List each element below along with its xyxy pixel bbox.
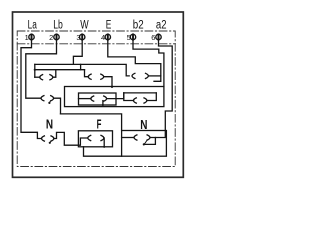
- wire terminal 3 to node A bus: [73, 40, 82, 65]
- terminal-strip divider (chain line): [17, 43, 175, 45]
- wire bus to contact S1 left: [34, 64, 36, 77]
- svg-text:3: 3: [76, 33, 80, 42]
- svg-text:N: N: [46, 117, 53, 131]
- contact S8b: [122, 135, 156, 146]
- wire terminal 4 to contact S3 right: [108, 40, 161, 82]
- wire terminal 5 to cam-group box: [133, 40, 164, 87]
- wire terminal 6 to contact S8 right: [155, 40, 172, 138]
- contact S2: [85, 70, 114, 88]
- contact S8a: [88, 135, 105, 148]
- terminal 1 (La): [29, 34, 34, 39]
- svg-text:E: E: [106, 20, 112, 32]
- node A upper bus: [35, 64, 129, 76]
- contact S5: [79, 93, 124, 106]
- terminal 3 (W): [80, 34, 85, 39]
- contact S3: [132, 73, 161, 78]
- svg-text:W: W: [80, 20, 89, 32]
- contact S1: [35, 70, 56, 80]
- svg-text:Lb: Lb: [53, 20, 63, 32]
- cam-group outer box: [65, 87, 164, 107]
- svg-text:2: 2: [49, 33, 53, 42]
- svg-text:5: 5: [127, 33, 131, 42]
- svg-text:4: 4: [101, 33, 105, 42]
- wire bus tie: [80, 64, 82, 69]
- svg-text:a2: a2: [156, 20, 167, 32]
- contact S7: [42, 132, 88, 145]
- switch enclosure boundary (chain line): [17, 31, 175, 167]
- svg-text:6: 6: [151, 33, 155, 42]
- terminal 5 (b2): [130, 34, 135, 39]
- contact S6: [124, 93, 157, 103]
- svg-text:La: La: [28, 20, 38, 32]
- wire cam box S8a to bottom rail: [84, 147, 122, 156]
- drawing frame: [13, 12, 184, 177]
- cam box S8b: [122, 131, 167, 157]
- svg-text:F: F: [97, 117, 102, 131]
- cam-group inner box: [79, 93, 117, 105]
- node C bus: [124, 92, 157, 94]
- svg-text:b2: b2: [133, 20, 144, 32]
- wire contact S4 to D-row box: [61, 114, 122, 131]
- contact S4: [41, 96, 61, 114]
- junction dot node B: [34, 69, 36, 71]
- node B lower bus: [35, 69, 85, 71]
- svg-text:1: 1: [25, 33, 29, 42]
- terminal 4 (E): [105, 34, 110, 39]
- wire terminal 1 to contact S6 left: [21, 40, 42, 139]
- terminal 6 (a2): [156, 34, 161, 39]
- wire terminal 2 to contact S4 left: [26, 40, 57, 99]
- cam box S8a: [78, 131, 112, 147]
- svg-text:N: N: [140, 118, 147, 132]
- terminal 2 (Lb): [54, 34, 59, 39]
